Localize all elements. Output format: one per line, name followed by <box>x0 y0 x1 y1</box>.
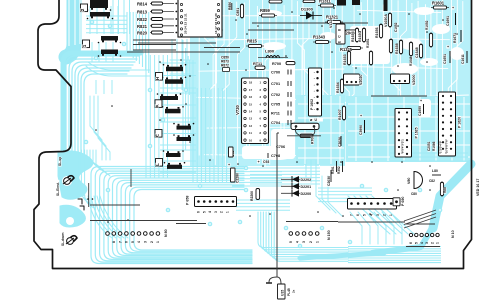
svg-text:R872: R872 <box>221 64 229 68</box>
svg-text:7: 7 <box>350 214 354 216</box>
svg-text:L: L <box>155 163 160 166</box>
svg-text:R1671: R1671 <box>453 33 457 43</box>
capacitor C7020 <box>338 136 342 148</box>
svg-text:R1655: R1655 <box>351 31 355 42</box>
capacitor C2030 <box>327 170 331 187</box>
svg-text:C93: C93 <box>263 160 269 164</box>
svg-text:R1343: R1343 <box>313 35 326 40</box>
svg-text:2x: 2x <box>292 289 296 293</box>
svg-text:•: • <box>314 78 315 81</box>
board outline <box>34 0 472 269</box>
svg-text:18: 18 <box>249 81 252 85</box>
svg-text:R708: R708 <box>311 136 315 144</box>
svg-text:•: • <box>314 72 315 75</box>
svg-text:4: 4 <box>296 241 300 243</box>
svg-text:R1601: R1601 <box>432 1 445 6</box>
transistor V2000 <box>391 74 417 86</box>
svg-text:C1655: C1655 <box>418 106 422 116</box>
svg-text:+: + <box>452 6 454 10</box>
cyan trace layer <box>58 0 478 264</box>
svg-text:+: + <box>447 45 449 49</box>
svg-text:1: 1 <box>156 241 160 243</box>
svg-text:C1651: C1651 <box>443 54 447 64</box>
svg-text:P 1625: P 1625 <box>415 127 419 138</box>
svg-text:U15: U15 <box>281 290 285 296</box>
svg-text:+: + <box>420 99 422 103</box>
svg-text:V1329: V1329 <box>329 18 333 28</box>
header P600 <box>348 199 397 217</box>
header P1620 <box>439 92 462 156</box>
svg-text:15: 15 <box>249 102 252 106</box>
svg-text:V720: V720 <box>235 104 240 114</box>
svg-text:*6*5*4*3*2*1: *6*5*4*3*2*1 <box>401 139 405 154</box>
svg-text:3: 3 <box>144 241 148 243</box>
svg-text:2: 2 <box>309 241 313 243</box>
via dots <box>95 7 458 223</box>
capacitor group C700-C708 <box>252 62 295 159</box>
svg-text:R821: R821 <box>137 24 148 29</box>
capacitor C1655 <box>418 99 424 117</box>
svg-text:R1692: R1692 <box>425 20 429 30</box>
svg-text:R1651: R1651 <box>366 38 370 48</box>
resistors R391 R392 <box>331 161 343 175</box>
svg-text:N 150: N 150 <box>327 230 331 240</box>
svg-text:12: 12 <box>249 124 252 128</box>
svg-text:R1653: R1653 <box>343 54 347 65</box>
svg-text:•: • <box>314 90 315 93</box>
svg-text:2: 2 <box>150 241 154 243</box>
svg-text:4: 4 <box>208 211 212 213</box>
svg-text:E: E <box>338 41 342 43</box>
svg-text:C708: C708 <box>271 154 280 158</box>
svg-text:R1686: R1686 <box>432 141 436 151</box>
svg-text:R88: R88 <box>443 187 447 193</box>
svg-text:R392: R392 <box>337 166 341 174</box>
svg-text:5: 5 <box>289 241 293 243</box>
diode D1300 <box>300 7 322 20</box>
resistor R1321 <box>325 15 343 24</box>
svg-text:3: 3 <box>302 241 306 243</box>
text VED 16 17 <box>476 178 480 197</box>
svg-text:5: 5 <box>202 211 206 213</box>
svg-text:RT11: RT11 <box>253 62 262 66</box>
top edge parts <box>228 0 388 19</box>
svg-text:6: 6 <box>197 211 201 213</box>
svg-text:5: 5 <box>415 242 419 244</box>
IC V720 <box>235 78 269 144</box>
resistor R1311 <box>318 0 336 7</box>
svg-text:C702: C702 <box>271 93 280 97</box>
svg-text:C1691: C1691 <box>446 16 450 26</box>
svg-text:C1652: C1652 <box>394 22 398 32</box>
svg-text:C2051: C2051 <box>427 141 431 151</box>
svg-text:R1648: R1648 <box>409 56 413 66</box>
svg-text:C2280: C2280 <box>236 173 240 183</box>
plug U15 PL49 <box>266 269 296 299</box>
connector N10 <box>409 230 455 244</box>
svg-text:P 690: P 690 <box>401 197 405 206</box>
resistors R814 R813 R822 R821 R820 <box>136 2 177 36</box>
IC D801 <box>178 0 222 37</box>
svg-text:4: 4 <box>369 214 373 216</box>
header P658 <box>186 195 237 213</box>
svg-text:1: 1 <box>389 214 393 216</box>
svg-text:*10*9*8*7*6*: *10*9*8*7*6* <box>445 139 449 154</box>
SL adjust screws <box>56 157 77 247</box>
svg-text:•: • <box>314 84 315 87</box>
header P1625 <box>395 109 419 158</box>
boxed marker E <box>155 130 163 138</box>
svg-text:2: 2 <box>430 242 434 244</box>
connector P690 <box>393 196 405 207</box>
svg-text:4: 4 <box>420 242 424 244</box>
svg-text:V1650A: V1650A <box>384 14 388 27</box>
svg-text:R1311: R1311 <box>319 0 332 4</box>
svg-text:E: E <box>155 134 160 137</box>
svg-text:R820: R820 <box>137 31 148 36</box>
svg-text:SL-up: SL-up <box>58 157 62 166</box>
svg-text:C80: C80 <box>411 192 417 196</box>
boxed marker H <box>155 73 163 81</box>
transistor V2020 <box>344 74 364 86</box>
svg-text:R815: R815 <box>247 39 258 44</box>
svg-text:VED 16 17: VED 16 17 <box>476 179 480 196</box>
boxed marker 2 <box>80 4 88 12</box>
svg-text:17: 17 <box>249 88 252 92</box>
capacitors C2280 C72 <box>227 147 239 184</box>
svg-text:3: 3 <box>214 211 218 213</box>
capacitor bars <box>87 0 195 169</box>
svg-text:+: + <box>228 163 230 167</box>
svg-text:R1650: R1650 <box>358 31 362 42</box>
svg-text:C704: C704 <box>271 121 281 125</box>
svg-text:R711: R711 <box>271 111 280 115</box>
svg-text:2: 2 <box>383 214 387 216</box>
svg-text:V2020: V2020 <box>359 75 363 85</box>
svg-text:3: 3 <box>376 214 380 216</box>
svg-text:R859: R859 <box>260 8 271 13</box>
svg-text:C700: C700 <box>271 70 280 74</box>
svg-text:C3990: C3990 <box>359 125 363 135</box>
labels C850 R873 R872 <box>220 56 229 72</box>
svg-text:N 80: N 80 <box>164 229 168 237</box>
svg-text:V80: V80 <box>407 178 411 184</box>
svg-text:2: 2 <box>220 211 224 213</box>
svg-text:C1611: C1611 <box>461 54 465 64</box>
svg-text:6: 6 <box>356 214 360 216</box>
inductor L800 <box>258 49 288 58</box>
labels C2051 R1686 <box>427 141 436 151</box>
resistor R815 <box>246 39 264 48</box>
svg-text:SL-Einst.: SL-Einst. <box>56 182 60 196</box>
svg-text:D1300: D1300 <box>301 7 314 12</box>
svg-text:R1654: R1654 <box>336 82 340 93</box>
transistor V80 <box>407 172 423 189</box>
svg-text:+: + <box>360 114 362 118</box>
transistor V1329 <box>329 18 345 44</box>
svg-text:D2201: D2201 <box>301 185 312 189</box>
svg-text:R813: R813 <box>137 10 148 15</box>
svg-text:C2030: C2030 <box>327 176 331 186</box>
diodes D2202 D2201 D2200 <box>281 176 311 197</box>
svg-text:1: 1 <box>225 211 229 213</box>
boxed marker 1 <box>82 40 90 48</box>
svg-text:R1658: R1658 <box>395 43 399 54</box>
svg-text:C705: C705 <box>271 102 280 106</box>
svg-text:N 10: N 10 <box>451 230 455 238</box>
svg-text:6: 6 <box>125 241 129 243</box>
svg-text:L80: L80 <box>432 169 438 173</box>
resistor R708 with connector <box>277 118 323 277</box>
svg-text:2: 2 <box>80 8 85 11</box>
svg-text:R391: R391 <box>331 166 335 174</box>
svg-text:R2200: R2200 <box>250 191 254 201</box>
capacitors C1691 R1671 C1651 C1611 <box>443 6 467 65</box>
resistor R2200 <box>250 189 260 202</box>
svg-text:C82: C82 <box>429 179 435 183</box>
svg-text:C1648: C1648 <box>415 47 419 58</box>
svg-text:P 1620: P 1620 <box>458 117 462 128</box>
svg-text:16 17 18 19 20: 16 17 18 19 20 <box>214 13 218 34</box>
svg-text:L800: L800 <box>265 49 275 54</box>
svg-text:7: 7 <box>118 241 122 243</box>
svg-text:5: 5 <box>363 214 367 216</box>
svg-text:3: 3 <box>425 242 429 244</box>
svg-text:1: 1 <box>82 44 87 47</box>
svg-text:C701: C701 <box>271 82 280 86</box>
resistor cluster right <box>336 12 433 121</box>
white open areas <box>242 26 431 159</box>
svg-text:SL-down: SL-down <box>61 232 65 246</box>
connector N150 <box>289 230 331 243</box>
capacitor C3990 <box>359 114 365 136</box>
resistor R1601 <box>431 1 449 10</box>
resistor R859 <box>259 8 277 17</box>
svg-text:R1907: R1907 <box>338 109 342 120</box>
resistor R1325 <box>339 46 363 52</box>
svg-text:•: • <box>314 96 315 99</box>
svg-text:V2000: V2000 <box>412 75 416 85</box>
connector N80 <box>106 229 168 243</box>
svg-text:8: 8 <box>112 241 116 243</box>
resistor R1320 <box>337 30 361 36</box>
svg-text:R1325: R1325 <box>340 47 353 52</box>
svg-text:P 1602: P 1602 <box>310 99 314 110</box>
svg-text:R822: R822 <box>137 17 148 22</box>
resistor R1343 <box>312 35 331 44</box>
svg-text:R1656: R1656 <box>375 27 379 38</box>
header P1602 <box>309 68 322 116</box>
svg-text:PL49: PL49 <box>287 288 291 296</box>
svg-text:P 658: P 658 <box>186 196 190 205</box>
svg-text:14: 14 <box>249 110 252 114</box>
svg-text:6: 6 <box>409 242 413 244</box>
svg-text:R700: R700 <box>272 62 281 66</box>
svg-text:C851: C851 <box>236 8 240 16</box>
svg-text:25 24 23 22 21: 25 24 23 22 21 <box>184 13 188 34</box>
boxed marker L <box>155 159 163 167</box>
bracket marks <box>78 198 93 210</box>
svg-text:1: 1 <box>315 241 319 243</box>
svg-text:D2202: D2202 <box>301 178 312 182</box>
svg-text:R814: R814 <box>137 2 148 7</box>
svg-text:*1*2*3*4*5*: *1*2*3*4*5* <box>439 141 443 154</box>
svg-text:1: 1 <box>436 242 440 244</box>
svg-text:5: 5 <box>131 241 135 243</box>
boxed marker K <box>155 100 163 108</box>
svg-text:10: 10 <box>249 138 252 142</box>
svg-text:16: 16 <box>249 95 252 99</box>
svg-text:D2200: D2200 <box>301 192 312 196</box>
svg-text:4: 4 <box>137 241 141 243</box>
capacitor C93 <box>257 153 269 164</box>
svg-text:13: 13 <box>249 117 252 121</box>
group L80 C80 R88 <box>410 169 447 197</box>
